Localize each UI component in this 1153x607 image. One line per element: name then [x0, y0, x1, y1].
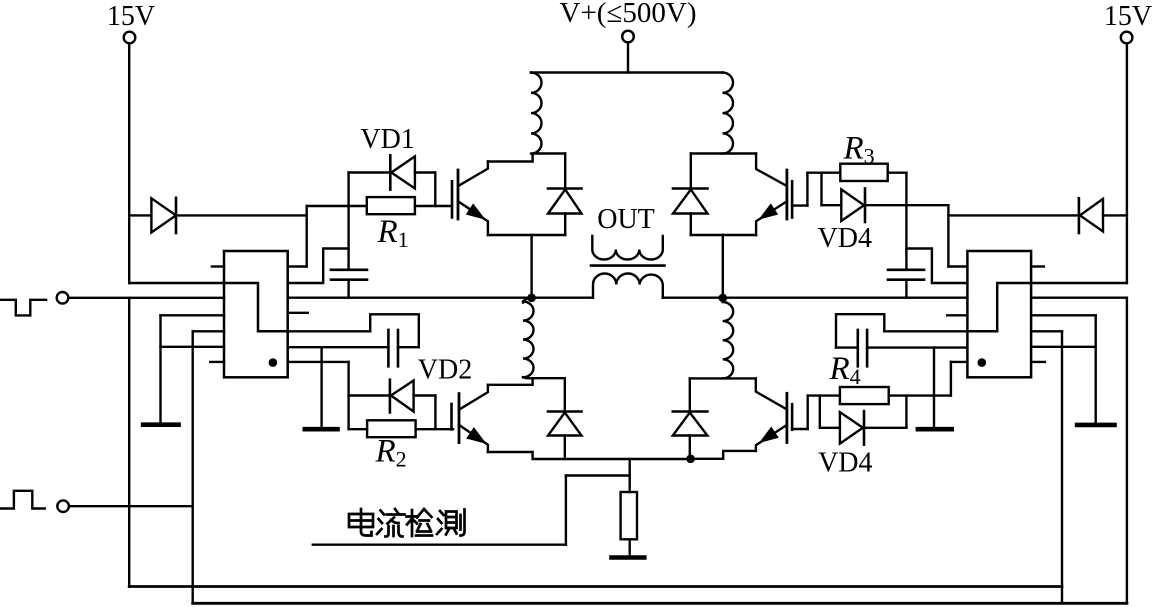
- terminal 15V left: [124, 32, 136, 44]
- wire bus1 right vertical: [1061, 331, 1063, 603]
- glyph jian: [407, 509, 433, 536]
- diode VD4 lower triangle: [840, 412, 863, 444]
- wire 15V left stem: [128, 44, 130, 284]
- wire Q1 collector bar: [488, 154, 565, 162]
- svg-text:V+(≤500V): V+(≤500V): [560, 0, 697, 29]
- transistor Q2 emitter arrow: [468, 429, 483, 442]
- transistor Q4 emitter arrow: [762, 429, 777, 441]
- transistor Q3 emitter arrow: [762, 206, 777, 218]
- wire VD2 cathode wire: [349, 394, 390, 396]
- diode VD2 triangle: [391, 381, 414, 412]
- wire D6 anode wire: [1103, 214, 1127, 216]
- wire D4 bottom lead: [689, 436, 691, 459]
- diode D3 freewheel upper-right triangle: [673, 190, 708, 214]
- resistor R1: [367, 197, 415, 214]
- op-amp U1 internal divider: [224, 283, 288, 331]
- svg-text:VD1: VD1: [360, 124, 414, 155]
- wire C1 top lead: [347, 206, 349, 270]
- wire Q2 collector bar: [488, 378, 565, 385]
- node C junction dot right mid: [719, 294, 728, 303]
- wire VD1 cathode wire: [349, 171, 391, 173]
- transistor Q4 channel bar: [786, 393, 789, 442]
- diode VD4 upper cathode bar: [864, 188, 867, 222]
- terminal V+ top: [622, 31, 634, 43]
- wire Q3 gate jog up: [806, 173, 808, 206]
- wire VD2 net vertical: [347, 362, 349, 429]
- wire VD1 cathode-side vertical: [347, 173, 349, 207]
- terminal input 2: [57, 500, 69, 512]
- wire VD4 upper anode wire: [822, 204, 842, 206]
- diode VD1 triangle: [391, 156, 415, 188]
- wire R1 left lead: [307, 205, 367, 207]
- inductor lower-right choke: [723, 298, 734, 378]
- diode D1 freewheel upper-left triangle: [548, 190, 582, 214]
- wire VD4 lower anode wire: [820, 427, 840, 429]
- wire R2 left lead: [349, 428, 368, 430]
- capacitor C4 decoupling right plates: [858, 330, 867, 366]
- ground left logic: [143, 422, 178, 427]
- wire Q2 emitter bar: [488, 452, 691, 459]
- terminal 15V right: [1121, 32, 1133, 44]
- terminal input 1: [57, 292, 69, 304]
- wire U2 pin to R4 net: [951, 361, 968, 363]
- op-amp U1 left driver IC body: [224, 251, 288, 377]
- diode VD1 cathode bar: [389, 155, 392, 189]
- diode D4 freewheel lower-right cathode bar: [673, 410, 708, 413]
- wire U1 pin to input2 vertical: [193, 330, 224, 332]
- transistor Q3 collector lead: [756, 154, 786, 186]
- wire left cell ground vertical: [320, 347, 322, 427]
- svg-text:R2: R2: [375, 434, 407, 472]
- op-amp U2 pin-1 dot: [978, 358, 987, 367]
- wire C4 z-path: [836, 314, 884, 347]
- inductor lower-left choke: [523, 298, 534, 379]
- capacitor C2 decoupling left plates: [388, 330, 398, 366]
- wire bus line 2: [193, 602, 1127, 605]
- wire upper-left cell to mid node: [530, 235, 532, 298]
- resistor R5 current sense: [621, 492, 637, 539]
- wire current detect output line: [313, 544, 566, 546]
- wire Q4 collector top rail: [690, 377, 756, 379]
- wire 15V rail to U1: [129, 282, 224, 284]
- wire VD1 anode jog down: [434, 173, 436, 207]
- transistor Q3 channel bar: [786, 170, 789, 219]
- diode D6 15V-right triangle: [1080, 199, 1103, 232]
- transistor Q4 lower-right IGBT gate bar: [791, 404, 794, 430]
- transistor Q1 emitter lead: [458, 201, 488, 235]
- wire C3 bottom lead: [905, 280, 907, 298]
- ground sense: [612, 555, 645, 560]
- wire Q4 gate lead: [792, 428, 808, 430]
- diode D2 freewheel lower-left triangle: [548, 413, 582, 436]
- wire U2 pin to right lower vertical: [1031, 297, 1127, 299]
- inductor upper-left choke: [531, 73, 542, 154]
- wire left rail lower segment: [128, 298, 130, 587]
- svg-text:15V: 15V: [107, 1, 155, 32]
- wire Q3 gate lead: [792, 204, 807, 206]
- wire upper-right cell to mid node: [722, 235, 724, 298]
- wire VD4 lower net vertical: [905, 396, 907, 428]
- diode D2 freewheel lower-left cathode bar: [548, 410, 582, 413]
- wire R4 net vertical: [950, 362, 952, 396]
- wire C2 z-path: [370, 314, 419, 347]
- wire C4 left plate lead: [836, 346, 858, 348]
- wire R3 right lead: [888, 171, 907, 173]
- transistor Q4 emitter lead: [756, 425, 787, 451]
- wire R2 right lead to gate: [416, 428, 453, 430]
- capacitor C1 bootstrap left plates: [331, 270, 367, 280]
- wire C2 right plate lead: [398, 346, 419, 348]
- transistor Q4 collector lead: [756, 378, 786, 409]
- wire U2 right stub pin: [1031, 265, 1044, 267]
- wire Q4 gate jog up: [807, 396, 809, 429]
- wire U1 pin to z-path: [288, 330, 371, 332]
- svg-text:R1: R1: [377, 214, 409, 252]
- wire R3 left lead: [807, 171, 840, 173]
- wire D2 bottom lead: [564, 436, 566, 460]
- diode VD4 upper triangle: [841, 189, 864, 221]
- wire U2 pin to right logic ground lower: [1031, 346, 1096, 348]
- wire U2 pin to right logic ground upper: [1031, 314, 1096, 316]
- diode D6 15V-right cathode bar: [1078, 198, 1081, 233]
- op-amp U1 pin-1 dot: [269, 358, 278, 367]
- wire mid rail right: [663, 297, 968, 299]
- wire VD1 anode wire: [415, 171, 435, 173]
- wire VD4 lower branch down: [819, 396, 821, 428]
- diode D3 freewheel upper-right cathode bar: [673, 187, 708, 190]
- glyph dian: [349, 509, 373, 536]
- wire D3 top lead: [690, 154, 692, 189]
- svg-text:VD2: VD2: [418, 355, 472, 386]
- wire VD2 anode wire: [414, 394, 436, 396]
- ground right logic: [1077, 423, 1114, 428]
- wire input2 to vertical: [69, 505, 193, 507]
- transformer T1 primary winding: [592, 236, 663, 260]
- transistor Q3 emitter lead: [756, 201, 787, 235]
- transformer T1 secondary winding: [593, 274, 663, 298]
- wire R1 right lead to gate: [415, 205, 452, 207]
- wire vertical R1-node to IC pin: [306, 206, 308, 267]
- wire U2 right stub pin 2: [1031, 361, 1045, 363]
- transistor Q2 lower-left IGBT gate bar: [450, 404, 453, 429]
- transformer T1 core: [591, 264, 665, 267]
- svg-text:R4: R4: [829, 351, 861, 389]
- input pulse symbol 1 (negative pulse): [0, 300, 46, 316]
- wire input2 vertical: [191, 331, 193, 603]
- wire sense resistor bottom lead: [629, 539, 631, 555]
- wire D5 cathode to R1 node: [176, 214, 307, 216]
- wire right cell ground vertical: [933, 348, 935, 427]
- wire U2 pin stub to vertical: [948, 265, 967, 267]
- svg-text:OUT: OUT: [597, 204, 655, 235]
- op-amp U2 internal divider: [967, 283, 1031, 331]
- transistor Q1 upper-left IGBT gate bar: [451, 181, 454, 217]
- wire sense resistor top lead: [629, 459, 631, 492]
- wire bus line 1: [129, 585, 1062, 588]
- svg-text:R3: R3: [843, 131, 875, 169]
- wire D1 top lead: [564, 154, 566, 189]
- glyph ce: [437, 510, 465, 536]
- svg-text:VD4: VD4: [818, 223, 872, 254]
- label dianliu jiance (current detect) hand-drawn glyphs: [349, 509, 465, 537]
- wire D4 top lead: [689, 378, 691, 411]
- wire D1 bottom lead: [564, 214, 566, 236]
- transistor Q2 channel bar: [458, 394, 461, 443]
- wire U1 right stub pin: [288, 312, 308, 314]
- transistor Q2 collector lead: [460, 385, 488, 409]
- wire left logic ground vertical: [159, 315, 161, 422]
- wire mid rail left: [288, 297, 593, 299]
- diode D4 freewheel lower-right triangle: [673, 413, 708, 436]
- wire IC pin stub to R1 vertical: [288, 265, 307, 267]
- wire U1 left stub pin 2: [210, 361, 224, 363]
- node A junction dot left mid: [527, 294, 536, 303]
- resistor R2: [367, 420, 416, 437]
- wire VD4 lower cathode wire: [864, 427, 906, 429]
- transistor Q2 emitter lead: [459, 425, 488, 452]
- diode D6 15V-right cathode wire: [948, 214, 1079, 216]
- wire U1 left stub pin: [212, 265, 224, 267]
- inductor upper-right choke: [723, 73, 734, 154]
- wire input1 to IC: [68, 297, 224, 299]
- wire VD2 anode jog down: [434, 396, 436, 430]
- wire IC pin to VD2 net: [288, 361, 349, 363]
- diode D1 freewheel upper-left cathode bar: [548, 187, 582, 190]
- wire D2 top lead: [564, 378, 566, 411]
- svg-text:VD4: VD4: [818, 448, 872, 479]
- wire VD4 upper branch down: [820, 173, 822, 206]
- wire D3 bottom lead: [690, 214, 692, 236]
- wire R3 node vertical to cap: [905, 173, 907, 270]
- wire U1 pin to C2 left plate: [288, 346, 389, 348]
- transistor Q3 upper-right IGBT gate bar: [791, 181, 794, 217]
- diode VD4 lower cathode bar: [863, 411, 866, 445]
- node B junction dot lower mid: [686, 455, 695, 464]
- ground left cell: [305, 427, 338, 432]
- diode D5 15V-left triangle: [151, 198, 176, 232]
- wire right logic ground vertical: [1094, 315, 1096, 422]
- wire U1 pin to gnd vertical lower: [161, 346, 225, 348]
- transistor Q1 collector lead: [459, 162, 488, 186]
- wire U2 left stub pin: [947, 314, 967, 316]
- wire right lower vertical: [1126, 298, 1128, 604]
- wire Q1 emitter bottom rail: [488, 234, 565, 236]
- wire Q3 collector top rail: [691, 152, 756, 154]
- wire Q4 emitter bar: [691, 451, 756, 459]
- diode D5 15V-left anode wire: [129, 214, 151, 216]
- wire C3 jog to U2 pin: [906, 249, 967, 284]
- ground right cell: [918, 427, 952, 432]
- wire current detect vertical: [565, 476, 567, 545]
- wire VD4 upper cathode wire: [865, 204, 948, 206]
- glyph liu: [377, 509, 405, 537]
- diode VD2 cathode bar: [389, 380, 392, 413]
- wire C1 jog to U1 pin: [288, 249, 349, 284]
- wire Q3 emitter bottom rail: [691, 234, 756, 236]
- wire V+ stem: [627, 43, 629, 73]
- resistor R4: [840, 387, 889, 404]
- wire R4 left lead: [808, 394, 840, 396]
- wire R4 right lead: [889, 394, 951, 396]
- wire 15V right stem: [1126, 44, 1128, 284]
- input pulse symbol 2 (positive pulse): [0, 491, 45, 509]
- diode D5 15V-left cathode bar: [175, 198, 178, 233]
- wire U2 pin to 15V rail: [1031, 282, 1127, 284]
- wire right driver input vertical: [947, 205, 949, 266]
- wire U2 pin to z-path: [884, 330, 967, 332]
- wire U1 pin to gnd vertical upper: [161, 314, 225, 316]
- wire current detect tap horizontal: [566, 474, 630, 476]
- svg-text:15V: 15V: [1104, 1, 1152, 32]
- op-amp U2 right driver IC body: [967, 251, 1031, 377]
- wire C1 bottom lead: [347, 280, 349, 298]
- wire U2 pin to C4 right plate: [867, 346, 967, 348]
- transistor Q1 emitter arrow: [468, 206, 483, 218]
- transistor Q1 channel bar: [457, 170, 460, 219]
- wire U2 pin to bus1 vertical: [1031, 330, 1062, 332]
- wire V+ top rail: [531, 71, 723, 73]
- resistor R3: [840, 164, 887, 181]
- capacitor C3 bootstrap right plates: [888, 270, 924, 280]
